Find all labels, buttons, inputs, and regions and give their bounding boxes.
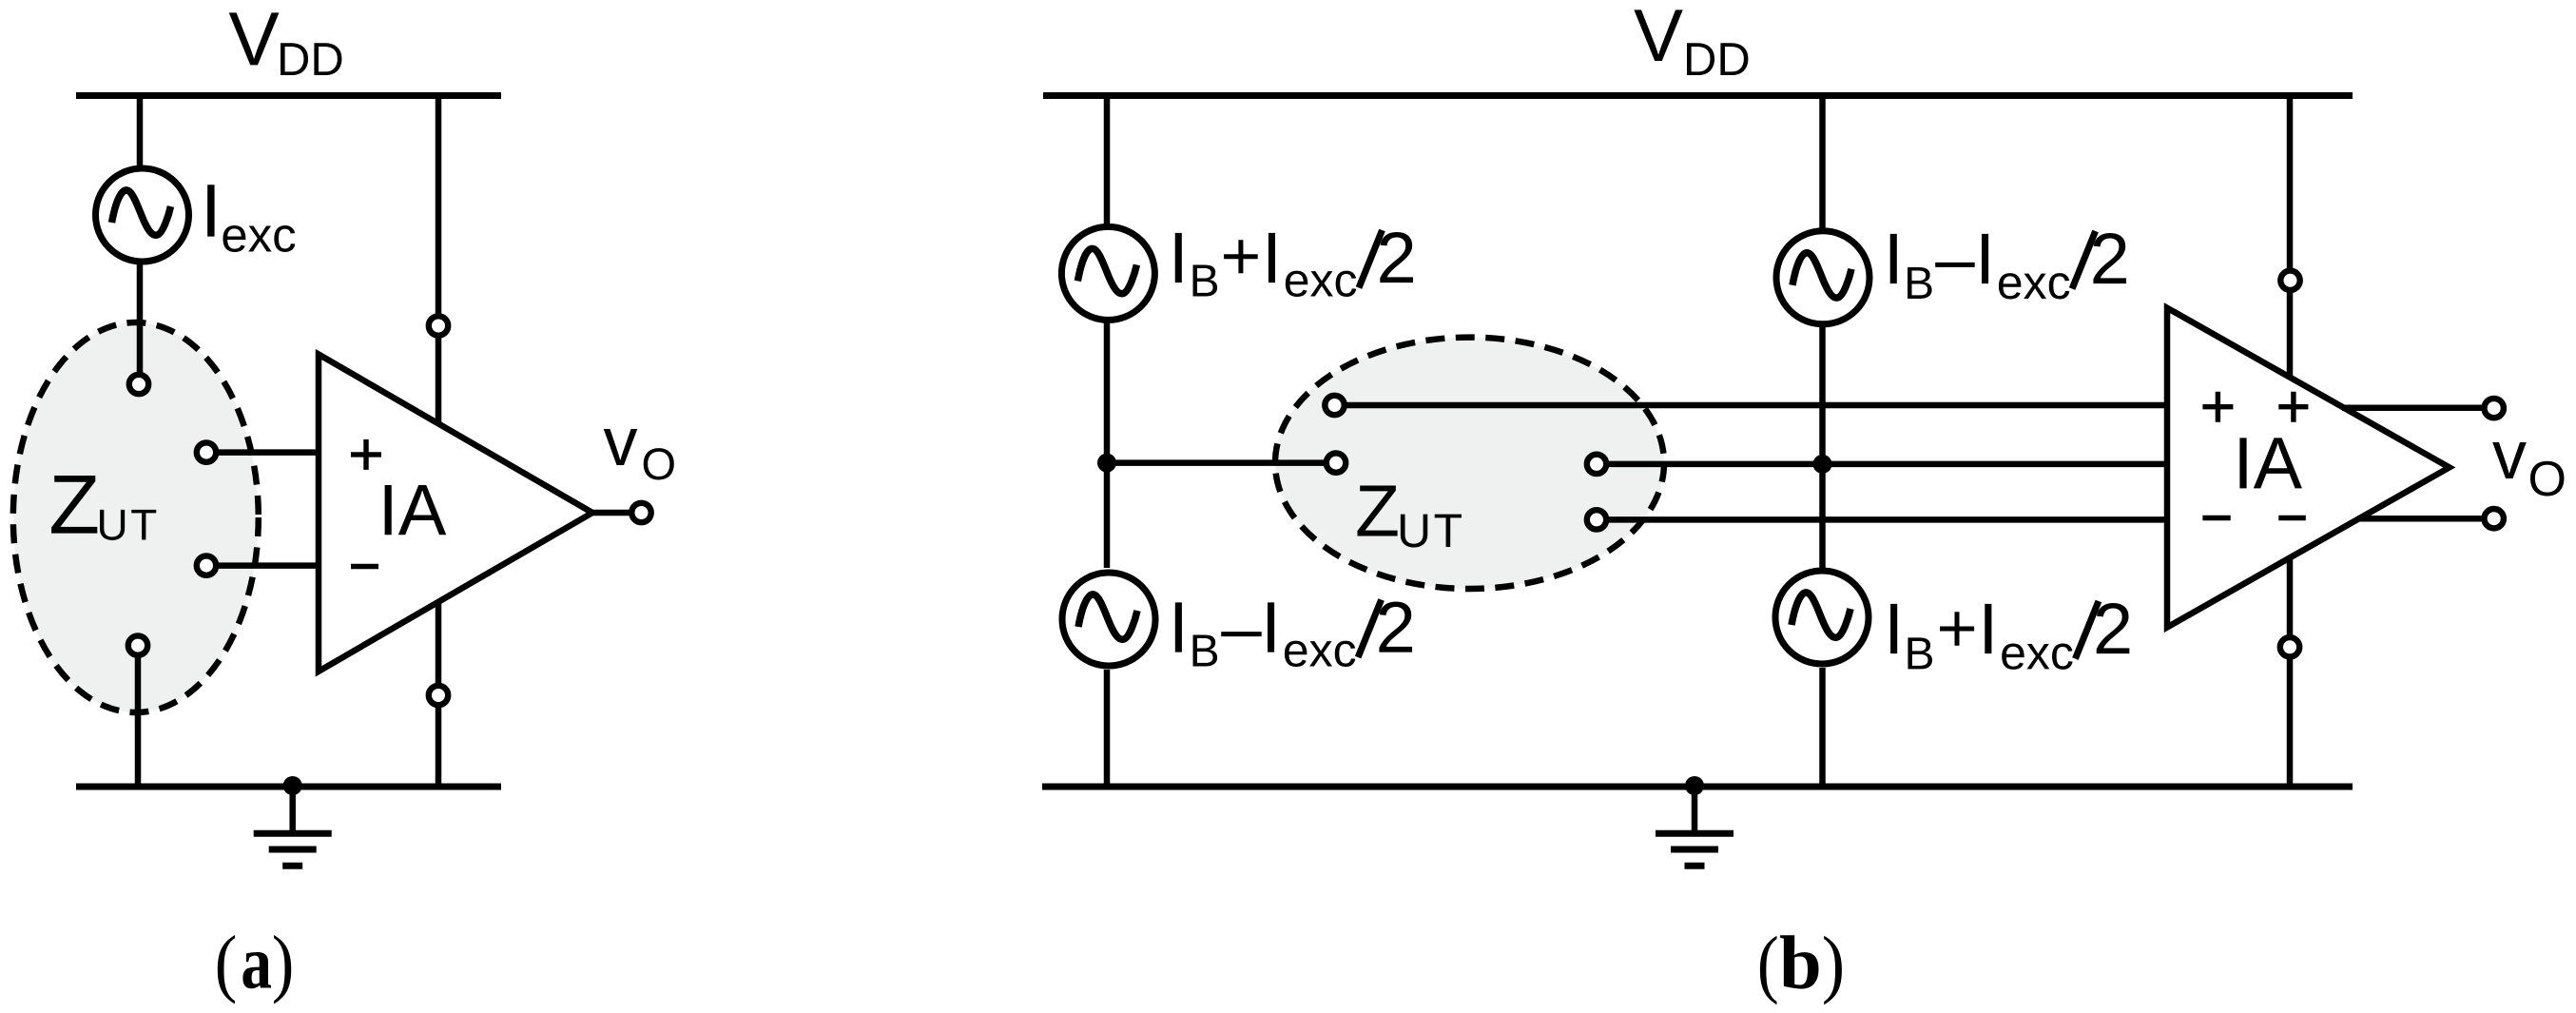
label exc subscript bottom left: [1285, 641, 1355, 667]
label IA (b): [2239, 438, 2301, 488]
wire ZUT terminal 2 to IA + input (a): [217, 449, 321, 456]
label - sign bottom left: [1221, 632, 1262, 636]
label V of VDD (b): [1634, 10, 1682, 61]
wire VDD to left sources branch (b): [1104, 96, 1111, 569]
current source IB-Iexc/2 top right: [1776, 231, 1869, 324]
label + sign bottom right: [1940, 612, 1974, 646]
wire right branch to ground rail (b): [1819, 668, 1826, 787]
ground symbol (b): [1656, 787, 1733, 866]
junction dot left branch (b): [1097, 454, 1116, 473]
supply pin circle top (b): [2280, 271, 2299, 290]
label I of IB+Iexc/2 bottom right: [1890, 604, 1897, 653]
ZUT terminal right-1 (b): [1587, 455, 1606, 474]
label B subscript bottom right: [1908, 637, 1932, 669]
label I of Iexc: [207, 185, 214, 236]
label v of vO (a): [604, 429, 638, 465]
ZUT terminal right-2 (b): [1587, 510, 1606, 529]
label Z of ZUT (b): [1357, 486, 1397, 536]
ZUT terminal 2 (a): [197, 442, 216, 461]
label I of IB-Iexc/2 top right: [1890, 234, 1897, 283]
label 2 bottom left: [1379, 602, 1412, 653]
label O subscript of vO (b): [2530, 461, 2564, 497]
junction dot ground rail (a): [283, 776, 302, 795]
label 2 top left: [1380, 232, 1413, 282]
ZUT terminal 3 (a): [197, 555, 216, 575]
junction dot right branch (b): [1813, 455, 1832, 474]
supply pin circle top (a): [429, 316, 448, 335]
op-amp IA triangle (b): [2167, 308, 2450, 628]
label slash bottom right: [2075, 601, 2099, 659]
label - - input signs (b): [2202, 516, 2305, 520]
output terminal vo- (b): [2485, 509, 2504, 528]
label DD subscript of VDD (a): [281, 43, 341, 75]
ground symbol (a): [254, 787, 332, 866]
ZUT terminal 1 (a): [129, 375, 148, 394]
label O subscript of vO (a): [644, 448, 674, 479]
wire IA supply vertical (b): [2287, 96, 2294, 788]
op-amp IA triangle (a): [319, 355, 592, 672]
output terminal vo (a): [631, 503, 650, 522]
wire ZUT right terminal 1 to IA mid input (b): [1608, 461, 2167, 468]
label + input sign (a): [351, 439, 381, 470]
wire IA output (a): [592, 510, 629, 516]
node VDD rail (b): [1043, 92, 2353, 99]
current source IB-Iexc/2 bottom left: [1062, 573, 1155, 666]
label 2 bottom right: [2097, 603, 2130, 653]
label exc subscript bottom right: [2002, 643, 2072, 669]
ZUT terminal 4 (a): [128, 635, 147, 654]
label B subscript top left: [1193, 264, 1218, 296]
supply pin circle bottom (b): [2280, 637, 2299, 656]
label v of vO (b): [2492, 442, 2527, 478]
wire current source Iexc to ZUT terminal 1: [137, 215, 144, 374]
label DD subscript of VDD (b): [1687, 43, 1748, 75]
wire IA - output (b): [2357, 516, 2482, 522]
label Z of ZUT (a): [51, 476, 97, 534]
current source Iexc: [96, 168, 189, 262]
label UT subscript of ZUT (b): [1401, 515, 1462, 548]
wire left branch to ground rail (b): [1104, 670, 1111, 787]
ZUT terminal mid-left (b): [1327, 453, 1346, 472]
wire ZUT right terminal 2 to IA - input (b): [1608, 516, 2167, 523]
wire IA + output (b): [2342, 405, 2482, 412]
label I of Iexc bottom left: [1268, 602, 1274, 652]
wire ZUT terminal 4 to ground rail (a): [135, 656, 142, 787]
current source IB+Iexc/2 top left: [1061, 226, 1154, 320]
ground rail (b): [1042, 784, 2353, 790]
ground rail (a): [76, 784, 501, 790]
wire left junction to ZUT left terminal (b): [1107, 459, 1324, 466]
output terminal vo+ (b): [2485, 399, 2504, 418]
node VDD rail (a): [76, 92, 501, 99]
label UT subscript of ZUT (a): [100, 510, 156, 540]
caption (b): [1760, 935, 1842, 1004]
ZUT terminal top-left (b): [1325, 396, 1344, 415]
wire ZUT top terminal to IA + input (b): [1346, 402, 2167, 409]
label + sign top left: [1224, 240, 1258, 273]
wire ZUT terminal 3 to IA - input (a): [217, 562, 321, 569]
impedance under test Z_UT dashed ellipse (a): [13, 322, 259, 712]
impedance under test Z_UT dashed ellipse (b): [1275, 338, 1664, 589]
wire VDD to right sources branch (b): [1819, 96, 1826, 569]
label IA (a): [385, 485, 447, 535]
label exc subscript of Iexc: [223, 225, 295, 252]
caption (a): [218, 935, 291, 1004]
wire VDD rail to current source Iexc: [137, 96, 144, 216]
label slash top left: [1359, 230, 1383, 288]
label - input sign (a): [351, 564, 378, 569]
current source IB+Iexc/2 bottom right: [1775, 571, 1869, 664]
label B subscript top right: [1908, 267, 1932, 299]
label I of IB-Iexc/2 bottom left: [1175, 602, 1182, 652]
label slash bottom left: [1358, 600, 1382, 658]
label V of VDD (a): [229, 12, 280, 65]
label 2 top right: [2093, 233, 2126, 283]
label + + input signs (b): [2202, 392, 2308, 422]
label I of IB+Iexc/2 top left: [1175, 233, 1182, 282]
label exc subscript top right: [1999, 273, 2069, 299]
supply pin circle bottom (a): [429, 686, 448, 705]
label - sign top right: [1935, 263, 1975, 267]
label I of Iexc top left: [1269, 233, 1275, 282]
label slash top right: [2072, 231, 2096, 289]
label I of Iexc bottom right: [1985, 604, 1991, 653]
wire IA supply vertical (a): [436, 96, 442, 788]
junction dot ground rail (b): [1685, 776, 1704, 795]
label exc subscript top left: [1286, 271, 1356, 297]
label B subscript bottom left: [1193, 634, 1218, 666]
label I of Iexc top right: [1982, 234, 1988, 283]
